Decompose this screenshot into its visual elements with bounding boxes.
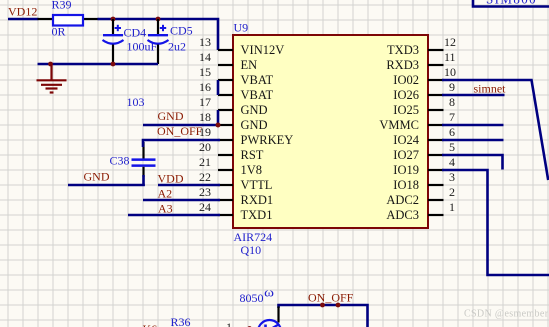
capacitor CD4 curved plate bbox=[103, 40, 124, 44]
svg-text:VBAT: VBAT bbox=[241, 88, 274, 102]
svg-text:12: 12 bbox=[444, 35, 456, 49]
svg-text:ADC2: ADC2 bbox=[386, 193, 419, 207]
svg-text:SIM800: SIM800 bbox=[486, 0, 537, 7]
pin 18 left bbox=[218, 124, 233, 126]
pin 2 right bbox=[428, 199, 444, 201]
svg-text:CD4: CD4 bbox=[124, 26, 147, 40]
svg-text:RXD3: RXD3 bbox=[386, 58, 419, 72]
svg-text:IO25: IO25 bbox=[393, 103, 419, 117]
svg-text:RST: RST bbox=[241, 148, 264, 162]
svg-text:IO24: IO24 bbox=[393, 133, 419, 147]
pin 14 left bbox=[218, 64, 233, 66]
pin 7 right bbox=[428, 124, 444, 126]
svg-text:3: 3 bbox=[449, 170, 455, 184]
svg-text:VTTL: VTTL bbox=[241, 178, 273, 192]
svg-text:2u2: 2u2 bbox=[168, 40, 186, 54]
pin 13 left bbox=[218, 49, 233, 51]
capacitor CD5 top plate bbox=[148, 34, 168, 36]
svg-text:IO27: IO27 bbox=[393, 148, 419, 162]
sheet box top right bbox=[473, 0, 549, 7]
pin 8 right bbox=[428, 109, 444, 111]
svg-text:TXD3: TXD3 bbox=[387, 43, 419, 57]
svg-text:C38: C38 bbox=[110, 153, 130, 167]
capacitor C38 bottom pin bbox=[142, 167, 144, 177]
svg-text:A2: A2 bbox=[158, 187, 173, 201]
transistor Q base bar bbox=[264, 325, 267, 327]
svg-text:Q10: Q10 bbox=[241, 243, 262, 257]
svg-text:GND: GND bbox=[84, 170, 110, 184]
svg-text:IO18: IO18 bbox=[393, 178, 419, 192]
svg-text:10: 10 bbox=[444, 65, 456, 79]
wire VD12 to R39 bbox=[8, 18, 39, 21]
wire ON_OFF to Q base rail bbox=[279, 305, 368, 327]
svg-text:8050: 8050 bbox=[240, 291, 264, 305]
svg-text:GND: GND bbox=[241, 118, 268, 132]
svg-text:16: 16 bbox=[199, 80, 211, 94]
capacitor CD5 top pin bbox=[157, 19, 159, 35]
wire pin7 bbox=[442, 124, 504, 127]
ground bbox=[37, 64, 67, 93]
wire GND pin18 bbox=[143, 124, 220, 127]
svg-text:6: 6 bbox=[449, 125, 455, 139]
svg-text:K6: K6 bbox=[143, 322, 158, 327]
capacitor CD5 bottom pin bbox=[157, 45, 159, 65]
resistor R39 pins bbox=[38, 18, 54, 20]
junction pin17/18 bbox=[216, 123, 221, 128]
svg-text:15: 15 bbox=[199, 65, 211, 79]
pin 4 right bbox=[428, 169, 444, 171]
wire pin6 bbox=[442, 139, 504, 142]
wire pin17 to pin18 GND link bbox=[217, 110, 220, 125]
svg-text:13: 13 bbox=[199, 35, 211, 49]
svg-text:5: 5 bbox=[449, 140, 455, 154]
pin 24 left bbox=[218, 214, 233, 216]
svg-text:23: 23 bbox=[199, 185, 211, 199]
svg-text:2: 2 bbox=[449, 185, 455, 199]
svg-text:GND: GND bbox=[241, 103, 268, 117]
pin 5 right bbox=[428, 154, 444, 156]
pin 9 right bbox=[428, 94, 444, 96]
svg-text:GND: GND bbox=[158, 109, 184, 123]
svg-text:EN: EN bbox=[241, 58, 258, 72]
svg-text:ON_OFF: ON_OFF bbox=[308, 291, 354, 305]
svg-text:VBAT: VBAT bbox=[241, 73, 274, 87]
capacitor CD4 plus sign bbox=[115, 25, 121, 31]
pin 20 left bbox=[218, 154, 233, 156]
wire pin10 long with slant bbox=[442, 80, 548, 180]
junction at CD4 bottom bbox=[111, 62, 116, 67]
transistor Q body circle bbox=[258, 320, 281, 327]
pin 22 left bbox=[218, 184, 233, 186]
svg-text:RXD1: RXD1 bbox=[241, 193, 274, 207]
svg-text:1V8: 1V8 bbox=[241, 163, 263, 177]
svg-text:1: 1 bbox=[226, 320, 232, 327]
pin 10 right bbox=[428, 79, 444, 81]
wire pin15 to pin16 VBAT link bbox=[217, 80, 220, 95]
pin 15 left bbox=[218, 79, 233, 81]
wire VDD pin22 bbox=[158, 184, 220, 187]
junction dot base wire bbox=[247, 326, 252, 327]
resistor R39 body bbox=[53, 15, 83, 26]
svg-text:VMMC: VMMC bbox=[379, 118, 419, 132]
svg-text:7: 7 bbox=[449, 110, 455, 124]
svg-text:17: 17 bbox=[199, 95, 211, 109]
pin 19 left bbox=[218, 139, 233, 141]
svg-text:VDD: VDD bbox=[158, 172, 184, 186]
wire A3 pin24 bbox=[128, 214, 220, 217]
svg-text:A3: A3 bbox=[158, 202, 173, 216]
wire ON_OFF pin19 to C38 bbox=[143, 140, 220, 147]
pin 6 right bbox=[428, 139, 444, 141]
svg-text:8: 8 bbox=[449, 95, 455, 109]
pin 12 right bbox=[428, 49, 444, 51]
capacitor C38 plates bbox=[132, 158, 156, 161]
pin 21 left bbox=[218, 169, 233, 171]
wire ground rail under CD4 CD5 bbox=[38, 63, 159, 66]
svg-text:21: 21 bbox=[199, 155, 211, 169]
svg-text:R36: R36 bbox=[171, 315, 191, 327]
junction dot 1 on ON_OFF wire bbox=[320, 303, 325, 308]
svg-text:ADC3: ADC3 bbox=[386, 208, 419, 222]
pin 11 right bbox=[428, 64, 444, 66]
wire GND net to C38 bbox=[68, 184, 145, 187]
svg-text:1: 1 bbox=[449, 200, 455, 214]
svg-text:VD12: VD12 bbox=[8, 5, 37, 19]
junction at CD5 top bbox=[156, 17, 161, 22]
wire A2 pin23 bbox=[143, 199, 220, 202]
pin 1 right bbox=[428, 214, 444, 216]
svg-text:VIN12V: VIN12V bbox=[241, 43, 285, 57]
svg-text:U9: U9 bbox=[234, 20, 249, 34]
transistor Q collector slant bbox=[268, 325, 279, 327]
capacitor CD5 curved plate bbox=[148, 40, 169, 44]
IC U9 body AIR724 bbox=[233, 35, 428, 228]
svg-text:ON_OFF: ON_OFF bbox=[157, 124, 203, 138]
svg-text:ω: ω bbox=[264, 286, 274, 300]
svg-text:CD5: CD5 bbox=[170, 23, 193, 37]
svg-text:9: 9 bbox=[449, 80, 455, 94]
svg-text:20: 20 bbox=[199, 140, 211, 154]
junction at ground stem bbox=[48, 62, 53, 67]
svg-text:24: 24 bbox=[199, 200, 211, 214]
wire pin4 down and right to edge bbox=[442, 170, 549, 275]
svg-text:R39: R39 bbox=[52, 0, 72, 12]
svg-text:IO19: IO19 bbox=[393, 163, 419, 177]
pin 23 left bbox=[218, 199, 233, 201]
svg-text:CSDN @esmember: CSDN @esmember bbox=[464, 309, 549, 320]
svg-text:TXD1: TXD1 bbox=[241, 208, 273, 222]
pin 16 left bbox=[218, 94, 233, 96]
svg-text:22: 22 bbox=[199, 170, 211, 184]
svg-text:14: 14 bbox=[199, 50, 211, 64]
svg-text:103: 103 bbox=[127, 95, 145, 109]
wire R39 to CD4/CD5 and pin13 corner bbox=[98, 19, 219, 50]
svg-text:IO02: IO02 bbox=[393, 73, 419, 87]
svg-text:AIR724: AIR724 bbox=[234, 230, 273, 244]
pin 3 right bbox=[428, 184, 444, 186]
svg-text:0R: 0R bbox=[52, 25, 66, 39]
svg-text:4: 4 bbox=[449, 155, 455, 169]
svg-text:simnet: simnet bbox=[474, 82, 507, 96]
svg-text:11: 11 bbox=[444, 50, 456, 64]
junction dot 2 on ON_OFF wire bbox=[336, 303, 341, 308]
capacitor CD5 plus sign bbox=[160, 25, 166, 31]
junction at CD4 top bbox=[111, 17, 116, 22]
transistor Q collector pin bbox=[277, 307, 279, 323]
svg-text:IO26: IO26 bbox=[393, 88, 419, 102]
capacitor C38 top pin bbox=[142, 142, 144, 159]
capacitor CD4 top plate bbox=[103, 34, 123, 36]
capacitor CD4 bottom pin bbox=[112, 45, 114, 65]
wire pin5 with down stub bbox=[442, 155, 503, 170]
pin 17 left bbox=[218, 109, 233, 111]
svg-text:18: 18 bbox=[199, 110, 211, 124]
wire pin9 simnet bbox=[442, 94, 505, 97]
svg-text:PWRKEY: PWRKEY bbox=[241, 133, 294, 147]
capacitor CD4 top pin bbox=[112, 19, 114, 35]
